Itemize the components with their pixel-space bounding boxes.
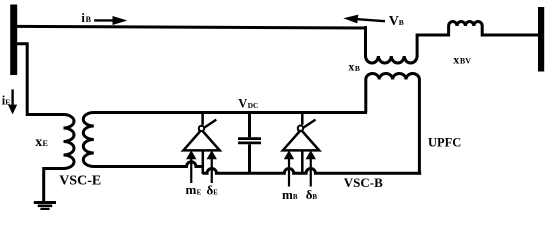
svg-text:m: m — [282, 187, 293, 202]
svg-text:B: B — [312, 193, 317, 201]
svg-text:E: E — [5, 98, 10, 107]
svg-text:x: x — [453, 52, 459, 66]
svg-text:VSC-B: VSC-B — [344, 175, 383, 190]
svg-text:V: V — [389, 14, 399, 29]
svg-text:x: x — [35, 135, 42, 150]
svg-text:E: E — [43, 139, 48, 148]
svg-text:V: V — [238, 97, 247, 111]
svg-text:B: B — [399, 18, 404, 27]
svg-text:x: x — [348, 60, 354, 74]
svg-text:B: B — [355, 64, 360, 73]
svg-text:E: E — [213, 190, 218, 197]
svg-text:DC: DC — [248, 101, 259, 110]
svg-text:B: B — [86, 15, 92, 24]
svg-text:B: B — [293, 193, 298, 201]
svg-text:VSC-E: VSC-E — [59, 174, 101, 189]
svg-text:BV: BV — [460, 57, 471, 66]
svg-text:E: E — [197, 189, 202, 196]
svg-text:UPFC: UPFC — [428, 135, 461, 149]
svg-text:m: m — [186, 182, 197, 197]
